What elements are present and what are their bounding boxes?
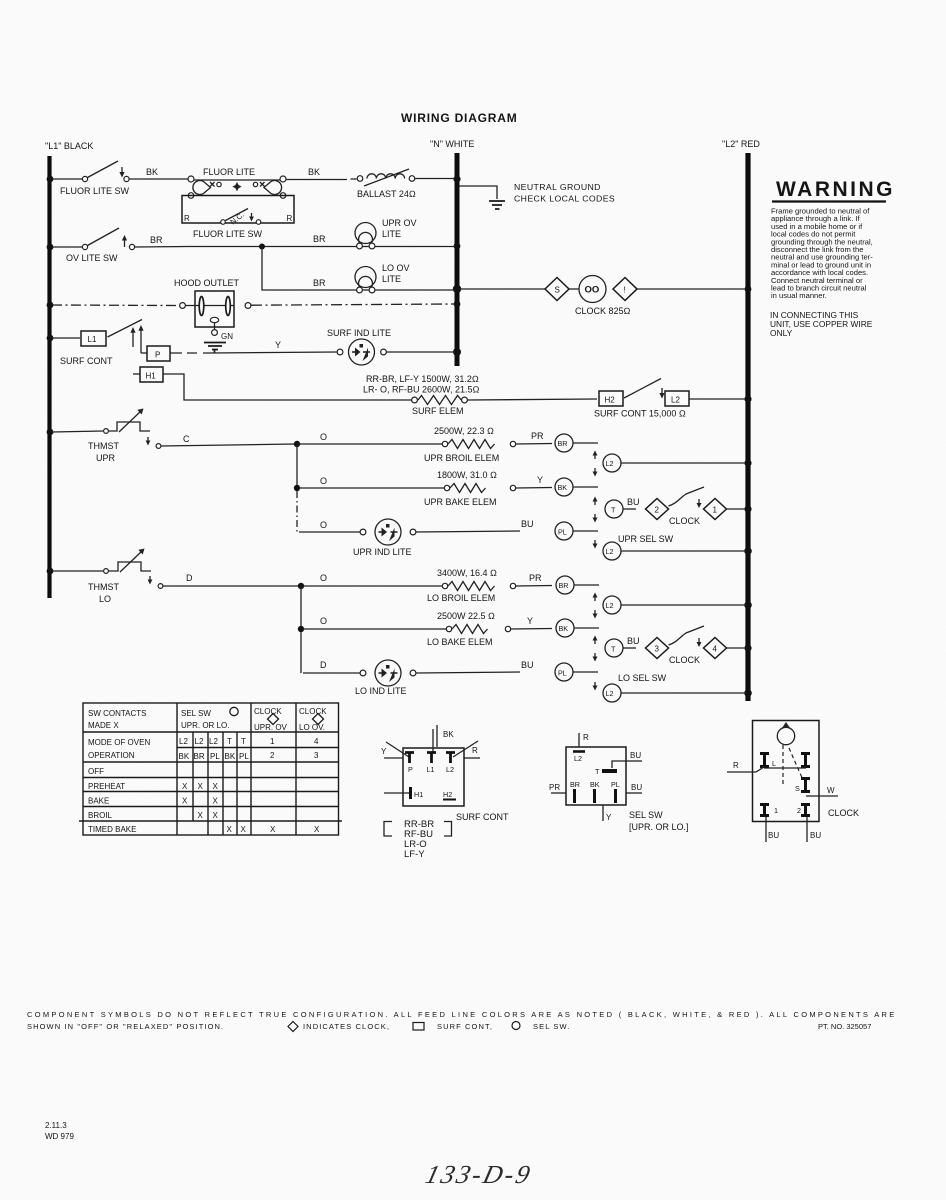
- connector T (upr): [605, 500, 636, 518]
- arrow H1 riser: [130, 327, 135, 347]
- box P: [141, 346, 170, 361]
- junction L2-upr-clock: [744, 505, 751, 512]
- svg-text:SURF ELEM: SURF ELEM: [412, 406, 464, 416]
- note symbol clock diamond: [288, 1022, 298, 1032]
- svg-text:OV LITE SW: OV LITE SW: [66, 253, 118, 263]
- svg-text:R: R: [184, 214, 190, 223]
- plug arrows upr T: [593, 497, 598, 523]
- wire UPR IND row: [299, 531, 360, 533]
- junction N-uprov: [454, 243, 461, 250]
- svg-text:L2: L2: [209, 737, 218, 746]
- junction upr branch: [294, 441, 300, 447]
- svg-text:1: 1: [270, 737, 275, 746]
- wire clock825 row: [459, 288, 545, 290]
- inductor BALLAST 24: [357, 169, 455, 186]
- box L1 (surf cont terminal): [81, 331, 106, 346]
- junction L2-upr-l2a: [744, 459, 751, 466]
- svg-text:L2: L2: [671, 396, 680, 405]
- svg-text:L2: L2: [179, 737, 188, 746]
- svg-text:1: 1: [713, 506, 718, 515]
- svg-text:T: T: [241, 737, 246, 746]
- svg-text:UPR. OR LO.: UPR. OR LO.: [181, 721, 229, 730]
- wire hood outlet row (dash-dot): [52, 304, 179, 307]
- svg-text:BALLAST 24Ω: BALLAST 24Ω: [357, 189, 416, 199]
- wire branch down 2: [300, 632, 302, 673]
- svg-text:PL: PL: [558, 528, 567, 537]
- svg-text:BK: BK: [225, 752, 236, 761]
- svg-text:X: X: [213, 811, 219, 820]
- connector PL (lo ind): [555, 663, 598, 681]
- svg-text:4: 4: [314, 737, 319, 746]
- svg-text:X: X: [227, 825, 233, 834]
- svg-text:3400W, 16.4 Ω: 3400W, 16.4 Ω: [437, 568, 497, 578]
- svg-text:RR-BR, LF-Y 1500W, 31.2Ω: RR-BR, LF-Y 1500W, 31.2Ω: [366, 374, 479, 384]
- svg-text:H1: H1: [146, 372, 157, 381]
- svg-text:W: W: [827, 786, 835, 795]
- arrow lo clock: [697, 638, 702, 647]
- thermostat THMST UPR: [52, 409, 295, 449]
- svg-text:COMPONENT SYMBOLS DO NOT RE: COMPONENT SYMBOLS DO NOT REFLECT TRUE CO…: [27, 1010, 897, 1019]
- junction L1-ovlite: [47, 244, 54, 251]
- lamp LO IND LITE: [360, 660, 520, 686]
- table header texts: [88, 707, 327, 760]
- connector L2 (upr a): [603, 454, 746, 472]
- ground NEUTRAL GROUND: [460, 186, 506, 209]
- svg-text:UPR BAKE ELEM: UPR BAKE ELEM: [424, 497, 497, 507]
- svg-text:BU: BU: [521, 519, 534, 529]
- svg-text:CLOCK: CLOCK: [669, 516, 700, 526]
- svg-text:BR: BR: [559, 581, 569, 590]
- svg-text:"L1" BLACK: "L1" BLACK: [45, 141, 93, 151]
- wire L1 to surf cont: [52, 337, 80, 339]
- warning underline: [772, 200, 886, 202]
- svg-text:H2: H2: [605, 396, 616, 405]
- wire ovlite to N bus: [188, 246, 455, 248]
- svg-text:3: 3: [314, 751, 319, 760]
- clock contact diamond 2: [646, 499, 669, 520]
- junction L2-clock825: [745, 286, 752, 293]
- junction L1-thmst-upr: [47, 429, 54, 436]
- lamp LO OV LITE: [355, 267, 376, 293]
- svg-text:UPR. OV: UPR. OV: [254, 723, 288, 732]
- svg-text:THMST: THMST: [88, 441, 119, 451]
- svg-text:L2: L2: [574, 754, 582, 763]
- junction L1-fluor: [47, 176, 54, 183]
- svg-text:L2: L2: [606, 547, 614, 556]
- svg-text:HOOD OUTLET: HOOD OUTLET: [174, 278, 240, 288]
- svg-text:D: D: [320, 660, 327, 670]
- svg-text:LO OV.: LO OV.: [299, 723, 325, 732]
- wire LO IND row: [303, 672, 360, 674]
- svg-text:X: X: [213, 782, 219, 791]
- svg-text:O: O: [320, 432, 327, 442]
- svg-text:S: S: [555, 286, 560, 295]
- bracket wire list: [384, 819, 452, 860]
- svg-text:THMST: THMST: [88, 582, 119, 592]
- svg-text:CLOCK 825Ω: CLOCK 825Ω: [575, 306, 631, 316]
- svg-text:T: T: [611, 645, 616, 654]
- svg-text:[UPR. OR LO.]: [UPR. OR LO.]: [629, 822, 689, 832]
- svg-text:BK: BK: [559, 624, 569, 633]
- svg-text:Y: Y: [606, 813, 612, 822]
- svg-text:LF-Y: LF-Y: [404, 849, 425, 860]
- svg-text:WD 979: WD 979: [45, 1132, 74, 1141]
- bus L2 red: [745, 153, 750, 701]
- svg-text:BR: BR: [194, 752, 205, 761]
- svg-text:R: R: [583, 733, 589, 742]
- svg-text:BU: BU: [521, 660, 534, 670]
- switch surf cont 15000 blade: [624, 379, 661, 399]
- connector L2 (upr b): [603, 542, 746, 560]
- svg-text:UPR: UPR: [96, 453, 116, 463]
- svg-text:"L2" RED: "L2" RED: [722, 139, 760, 149]
- svg-text:H1: H1: [414, 790, 423, 799]
- junction N-hood: [454, 301, 461, 308]
- clock motor OO: [579, 276, 606, 303]
- wire P to surf ind lite (dashed then solid): [170, 352, 210, 354]
- svg-text:"N" WHITE: "N" WHITE: [430, 139, 474, 149]
- box fluor-lite-sw NC: [182, 196, 294, 227]
- svg-text:BK: BK: [558, 483, 568, 492]
- component CLOCK detail: [727, 721, 838, 843]
- svg-text:PR: PR: [549, 783, 560, 792]
- svg-text:L: L: [772, 759, 776, 768]
- svg-text:X: X: [241, 825, 247, 834]
- svg-text:R: R: [733, 761, 739, 770]
- svg-text:BR: BR: [150, 235, 163, 245]
- junction N-surfind: [453, 348, 461, 356]
- svg-text:O: O: [320, 476, 327, 486]
- wire LO BROIL row: [303, 585, 442, 587]
- switch OV LITE SW: [52, 228, 188, 250]
- switch FLUOR LITE SW (main): [52, 161, 188, 182]
- bus L1 black: [47, 156, 51, 598]
- svg-text:X: X: [213, 797, 219, 806]
- connector BR (upr broil): [555, 434, 598, 452]
- svg-text:X: X: [198, 782, 204, 791]
- svg-text:FLUOR LITE SW: FLUOR LITE SW: [193, 229, 263, 239]
- svg-text:2500W 22.5 Ω: 2500W 22.5 Ω: [437, 611, 495, 621]
- table data rows: [88, 767, 320, 834]
- svg-text:SEL SW.: SEL SW.: [533, 1022, 570, 1031]
- svg-text:GN: GN: [221, 332, 233, 341]
- svg-text:4: 4: [713, 645, 718, 654]
- wire: [569, 288, 579, 290]
- svg-text:T: T: [595, 767, 600, 776]
- svg-text:TIMED BAKE: TIMED BAKE: [88, 825, 136, 834]
- arrow upr clock: [697, 499, 702, 508]
- wire to bus: [727, 508, 747, 510]
- wire UPR BAKE row: [299, 487, 444, 489]
- junction lo bake: [298, 626, 304, 632]
- svg-text:BK: BK: [179, 752, 190, 761]
- svg-text:SURF CONT: SURF CONT: [456, 812, 509, 822]
- wire branch down: [296, 444, 298, 488]
- resistor LO BROIL ELEM: [442, 582, 552, 591]
- clock contact diamond 3: [646, 638, 669, 659]
- svg-text:UPR OV: UPR OV: [382, 218, 417, 228]
- svg-text:L2: L2: [195, 737, 204, 746]
- bus N white: [455, 153, 460, 366]
- svg-text:BU: BU: [631, 783, 642, 792]
- svg-text:L2: L2: [606, 601, 614, 610]
- connector L2 (lo a): [603, 596, 746, 614]
- svg-text:in usual manner.: in usual manner.: [771, 291, 827, 300]
- plug arrows lo L2a: [593, 593, 598, 619]
- box L2 (surf cont 15000): [665, 391, 689, 406]
- svg-text:PR: PR: [531, 431, 544, 441]
- svg-text:MADE X: MADE X: [88, 721, 119, 730]
- connector BR (lo broil): [556, 576, 599, 594]
- switch upr clock blade: [669, 487, 705, 506]
- svg-text:BR: BR: [313, 234, 326, 244]
- clock contact diamond S: [545, 278, 569, 301]
- svg-text:P: P: [155, 351, 160, 360]
- wire UPR BROIL row: [299, 443, 442, 445]
- table switch chart: [79, 703, 342, 835]
- thermostat THMST LO: [52, 549, 299, 589]
- svg-text:BU: BU: [627, 636, 640, 646]
- svg-text:Y: Y: [381, 747, 387, 756]
- svg-text:FLUOR LITE: FLUOR LITE: [203, 167, 255, 177]
- plug arrows upr L2a: [593, 451, 598, 477]
- svg-text:BK: BK: [146, 167, 158, 177]
- svg-text:X: X: [270, 825, 276, 834]
- svg-text:2.11.3: 2.11.3: [45, 1121, 67, 1130]
- svg-text:BU: BU: [630, 751, 641, 760]
- svg-text:LO SEL SW: LO SEL SW: [618, 673, 667, 683]
- svg-text:R: R: [287, 214, 293, 223]
- junction N-loov-clock: [453, 285, 461, 293]
- resistor UPR BROIL ELEM: [442, 440, 552, 449]
- wire H1 to surf elem: [163, 374, 412, 400]
- junction L2-lo-l2b: [744, 689, 752, 697]
- svg-text:H2: H2: [443, 790, 452, 799]
- svg-text:O: O: [320, 616, 327, 626]
- svg-text:L2: L2: [606, 689, 614, 698]
- junction L2-upr-l2b: [744, 547, 752, 555]
- svg-text:BU: BU: [768, 831, 779, 840]
- connector PL (upr ind): [555, 522, 598, 540]
- svg-text:CLOCK: CLOCK: [299, 707, 327, 716]
- svg-text:PL: PL: [611, 780, 620, 789]
- svg-text:PR: PR: [529, 573, 542, 583]
- svg-text:PREHEAT: PREHEAT: [88, 782, 125, 791]
- svg-text:CLOCK: CLOCK: [669, 655, 700, 665]
- svg-text:O: O: [320, 520, 327, 530]
- lamp SURF IND LITE: [337, 339, 455, 365]
- svg-text:BK: BK: [308, 167, 320, 177]
- arrow P riser: [138, 325, 143, 353]
- svg-text:UPR SEL SW: UPR SEL SW: [618, 534, 674, 544]
- svg-text:L1: L1: [427, 765, 435, 774]
- svg-text:2: 2: [797, 806, 801, 815]
- svg-text:PL: PL: [558, 669, 567, 678]
- wire to bus: [727, 647, 747, 649]
- svg-text:1800W, 31.0 Ω: 1800W, 31.0 Ω: [437, 470, 497, 480]
- svg-text:UPR BROIL ELEM: UPR BROIL ELEM: [424, 453, 499, 463]
- clock contact diamond 4: [704, 638, 727, 659]
- svg-text:BROIL: BROIL: [88, 811, 113, 820]
- junction lo branch: [298, 583, 304, 589]
- junction L2-surfcont15000: [744, 395, 751, 402]
- svg-text:BU: BU: [810, 831, 821, 840]
- svg-text:ONLY: ONLY: [770, 328, 793, 338]
- svg-text:NEUTRAL GROUND: NEUTRAL GROUND: [514, 182, 601, 192]
- connector L2 (lo b): [603, 684, 746, 702]
- svg-text:LO OV: LO OV: [382, 263, 410, 273]
- junction L1-thmst-lo: [47, 568, 54, 575]
- outlet HOOD OUTLET: [180, 291, 455, 353]
- svg-text:X: X: [314, 825, 320, 834]
- svg-text:L1: L1: [88, 335, 97, 344]
- svg-text:O: O: [320, 573, 327, 583]
- svg-text:L2: L2: [606, 459, 614, 468]
- svg-text:FLUOR LITE SW: FLUOR LITE SW: [60, 186, 130, 196]
- wire to L2 bus: [637, 288, 746, 290]
- clock contact diamond 1: [704, 499, 727, 520]
- junction L2-lo-clock: [744, 644, 751, 651]
- svg-text:PT. NO. 325057: PT. NO. 325057: [818, 1022, 871, 1031]
- wire branch down dashdot: [296, 491, 298, 532]
- svg-text:R: R: [472, 746, 478, 755]
- plug arrow upr L2b: [593, 540, 598, 549]
- warning copper note: [770, 310, 873, 338]
- note symbol sel sw circle: [512, 1022, 520, 1030]
- svg-text:2: 2: [270, 751, 275, 760]
- arrow surf cont 15000: [659, 388, 664, 399]
- box H1: [133, 367, 163, 382]
- svg-text:BR: BR: [313, 278, 326, 288]
- svg-text:SURF CONT,: SURF CONT,: [437, 1022, 493, 1031]
- svg-text:S: S: [795, 784, 800, 793]
- wire LO BAKE row: [303, 628, 446, 630]
- svg-text:133-D-9: 133-D-9: [423, 1159, 536, 1189]
- svg-text:BR: BR: [570, 780, 580, 789]
- table subheader row: [179, 737, 320, 761]
- svg-text:Y: Y: [275, 340, 281, 350]
- wire branch down to LO OV: [262, 247, 455, 291]
- svg-text:2500W, 22.3 Ω: 2500W, 22.3 Ω: [434, 426, 494, 436]
- wire branch down: [300, 586, 302, 629]
- svg-text:PL: PL: [239, 752, 249, 761]
- svg-text:CLOCK: CLOCK: [254, 707, 282, 716]
- svg-text:T: T: [227, 737, 232, 746]
- svg-text:BR: BR: [558, 439, 568, 448]
- svg-text:Y: Y: [537, 475, 543, 485]
- lamp fixture FLUOR LITE: [188, 176, 286, 198]
- box H2: [599, 391, 623, 406]
- svg-text:X: X: [182, 797, 188, 806]
- lamp UPR OV LITE: [355, 223, 376, 249]
- svg-text:LO IND LITE: LO IND LITE: [355, 686, 407, 696]
- plug arrows lo T: [593, 636, 598, 662]
- junction upr bake: [294, 485, 300, 491]
- junction N-ballast: [453, 175, 460, 182]
- svg-text:LITE: LITE: [382, 229, 401, 239]
- svg-text:X: X: [198, 811, 204, 820]
- lamp UPR IND LITE: [360, 519, 520, 545]
- svg-text:SURF CONT: SURF CONT: [60, 356, 113, 366]
- svg-text:CHECK LOCAL CODES: CHECK LOCAL CODES: [514, 194, 615, 204]
- resistor SURF ELEM: [412, 396, 597, 405]
- svg-text:T: T: [611, 506, 616, 515]
- table header symbols: [230, 707, 238, 715]
- warning body text: [771, 207, 873, 301]
- svg-text:2: 2: [655, 506, 660, 515]
- connector T (lo): [605, 639, 636, 657]
- switch surf cont blade: [108, 320, 143, 338]
- svg-text:BU: BU: [627, 497, 640, 507]
- svg-text:SURF IND LITE: SURF IND LITE: [327, 328, 391, 338]
- svg-text:CLOCK: CLOCK: [828, 808, 859, 818]
- svg-text:SEL SW: SEL SW: [181, 709, 211, 718]
- svg-text:OO: OO: [585, 285, 600, 296]
- junction ovlite branch: [259, 244, 265, 250]
- svg-text:SHOWN IN "OFF" OR "RELAXED": SHOWN IN "OFF" OR "RELAXED" POSITION.: [27, 1022, 224, 1031]
- svg-text:X: X: [182, 782, 188, 791]
- svg-text:MODE OF OVEN: MODE OF OVEN: [88, 738, 150, 747]
- svg-text:LO BROIL ELEM: LO BROIL ELEM: [427, 593, 495, 603]
- junction L1-surfcont: [47, 335, 54, 342]
- wire to L2 bus: [689, 398, 746, 400]
- svg-text:1: 1: [774, 806, 778, 815]
- wire fixture to ballast: [286, 178, 357, 181]
- svg-text:BK: BK: [590, 780, 600, 789]
- svg-text:OPERATION: OPERATION: [88, 751, 135, 760]
- svg-text:PL: PL: [210, 752, 220, 761]
- component SEL SW detail: [549, 733, 642, 822]
- svg-text:3: 3: [655, 645, 660, 654]
- connector BK (lo bake): [556, 619, 599, 637]
- component SURF CONT detail: [381, 725, 480, 806]
- svg-text:BAKE: BAKE: [88, 797, 109, 806]
- plug arrow lo L2b: [593, 682, 598, 691]
- resistor UPR BAKE ELEM: [444, 484, 552, 493]
- svg-text:UPR IND LITE: UPR IND LITE: [353, 547, 412, 557]
- svg-text:L2: L2: [446, 765, 454, 774]
- svg-text:SURF CONT 15,000 Ω: SURF CONT 15,000 Ω: [594, 409, 686, 419]
- junction L1-hood: [47, 302, 54, 309]
- svg-text:SEL SW: SEL SW: [629, 810, 663, 820]
- svg-text:D: D: [186, 573, 193, 583]
- svg-text:SW CONTACTS: SW CONTACTS: [88, 709, 147, 718]
- junction L2-lo-l2a: [744, 601, 752, 609]
- clock contact diamond !: [613, 278, 637, 301]
- svg-text:!: !: [624, 286, 626, 295]
- connector BK (upr bake): [555, 478, 598, 496]
- svg-text:P: P: [408, 765, 413, 774]
- svg-text:BK: BK: [443, 730, 454, 739]
- svg-text:WARNING: WARNING: [776, 178, 895, 201]
- svg-text:LO BAKE ELEM: LO BAKE ELEM: [427, 637, 493, 647]
- svg-text:C: C: [183, 434, 190, 444]
- svg-text:WIRING DIAGRAM: WIRING DIAGRAM: [401, 111, 518, 125]
- note symbol surf cont square: [413, 1023, 424, 1031]
- resistor LO BAKE ELEM: [446, 625, 552, 634]
- svg-text:OFF: OFF: [88, 767, 104, 776]
- svg-text:INDICATES CLOCK,: INDICATES CLOCK,: [303, 1022, 390, 1031]
- svg-text:LO: LO: [99, 594, 111, 604]
- svg-text:Y: Y: [527, 616, 533, 626]
- svg-text:LR- O, RF-BU 2600W, 21.5Ω: LR- O, RF-BU 2600W, 21.5Ω: [363, 385, 480, 395]
- svg-text:LITE: LITE: [382, 274, 401, 284]
- switch lo clock blade: [669, 626, 705, 645]
